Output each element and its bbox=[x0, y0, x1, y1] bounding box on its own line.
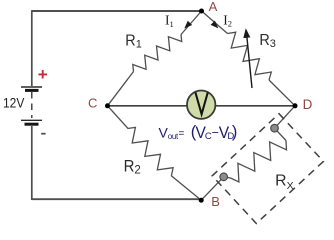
wire bottom rail to node B bbox=[32, 198, 201, 200]
battery cell 2 short thick plate bbox=[25, 123, 39, 126]
current arrow I2 bbox=[211, 21, 219, 29]
wire resistor R2 to node B bbox=[171, 176, 201, 201]
RX upper terminal circle bbox=[271, 124, 279, 132]
variable resistor R3 arrow shaft bbox=[247, 36, 252, 88]
resistor RX lead to upper terminal bbox=[275, 128, 287, 140]
svg-text:B: B bbox=[211, 194, 220, 209]
voltmeter V letter bbox=[195, 92, 207, 114]
svg-text:RX: RX bbox=[275, 173, 293, 192]
battery inter-cell dashed link bbox=[31, 92, 33, 118]
resistor RX zigzag bbox=[231, 141, 287, 183]
variable resistor R3 arrow head bbox=[243, 28, 250, 38]
battery cell 2 long plate bbox=[21, 119, 42, 121]
svg-text:R1: R1 bbox=[125, 33, 142, 51]
svg-text:A: A bbox=[209, 0, 218, 14]
svg-text:R2: R2 bbox=[124, 158, 141, 177]
voltmeter body circle bbox=[187, 91, 215, 119]
resistor R2 zigzag bbox=[128, 127, 174, 175]
svg-text:D: D bbox=[303, 97, 313, 112]
svg-text:I2: I2 bbox=[223, 13, 232, 29]
node A junction dot bbox=[199, 9, 204, 14]
current arrow I1 bbox=[184, 21, 192, 29]
node D junction dot bbox=[293, 103, 298, 108]
svg-text:I1: I1 bbox=[165, 13, 174, 29]
node B junction dot bbox=[199, 198, 204, 203]
wire node A to resistor R1 (current I1 branch) bbox=[181, 11, 202, 35]
svg-text:+: + bbox=[38, 65, 48, 84]
wire resistor R3 to node D bbox=[269, 80, 295, 106]
wire RX upper terminal to node D bbox=[275, 106, 296, 128]
svg-text:Vout=(VC−VD): Vout=(VC−VD) bbox=[159, 123, 238, 142]
wire node A to resistor R3 (current I2 branch) bbox=[202, 11, 228, 34]
battery 12V cell 1 long plate bbox=[21, 86, 42, 88]
resistor R3 zigzag (variable) bbox=[228, 32, 272, 80]
wire top rail battery to node A bbox=[32, 10, 202, 12]
resistor RX lead from lower terminal bbox=[224, 177, 231, 178]
wire left from top rail down to battery + terminal bbox=[31, 10, 33, 86]
node C junction dot bbox=[105, 103, 110, 108]
svg-text:R3: R3 bbox=[259, 32, 276, 50]
svg-text:12V: 12V bbox=[3, 96, 24, 111]
wire resistor R1 to node C bbox=[108, 72, 134, 106]
dashed enclosure box around RX bbox=[212, 114, 323, 224]
wire node B to RX lower terminal bbox=[201, 177, 224, 200]
wire galvanometer rail node C to node D bbox=[108, 105, 296, 107]
battery minus sign bbox=[41, 133, 45, 135]
wire battery - terminal down to bottom rail bbox=[31, 126, 33, 200]
RX lower terminal circle bbox=[220, 173, 228, 181]
svg-text:C: C bbox=[88, 96, 97, 111]
wire node C to resistor R2 bbox=[108, 106, 129, 129]
battery cell 1 short thick plate bbox=[25, 89, 39, 92]
resistor R1 zigzag bbox=[133, 35, 182, 72]
